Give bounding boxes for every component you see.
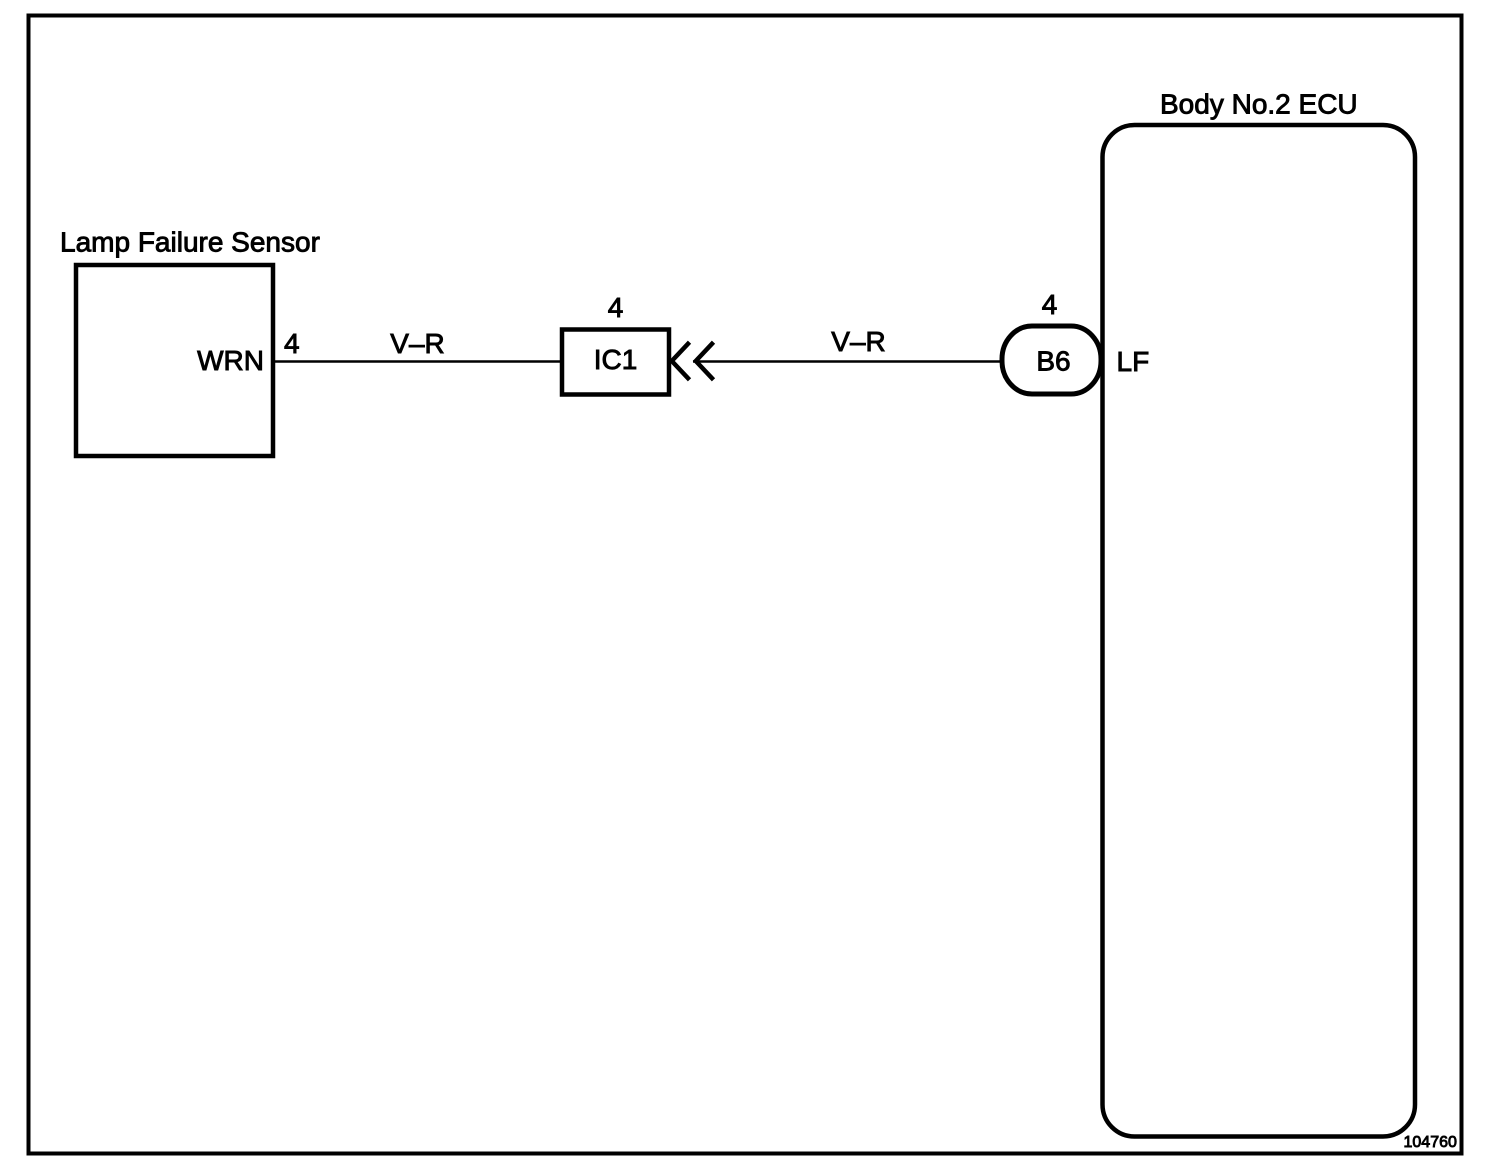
Body No.2 ECU box	[1103, 125, 1416, 1137]
svg-text:LF: LF	[1117, 346, 1150, 377]
wire sensor to IC1	[273, 360, 563, 363]
svg-text:Body No.2 ECU: Body No.2 ECU	[1160, 89, 1358, 120]
svg-text:4: 4	[608, 292, 624, 323]
junction IC1 box	[562, 330, 669, 395]
svg-text:4: 4	[1042, 289, 1058, 320]
svg-text:4: 4	[284, 328, 300, 359]
svg-text:IC1: IC1	[594, 344, 638, 375]
svg-text:V–R: V–R	[390, 328, 444, 359]
arrow chevron 2	[696, 342, 714, 380]
arrow chevron 1	[672, 342, 690, 380]
svg-text:WRN: WRN	[197, 345, 264, 376]
svg-text:B6: B6	[1036, 346, 1070, 377]
svg-text:V–R: V–R	[831, 326, 885, 357]
svg-text:104760: 104760	[1404, 1134, 1457, 1151]
svg-text:Lamp Failure Sensor: Lamp Failure Sensor	[60, 227, 320, 258]
wire B6 to arrow	[693, 360, 1002, 363]
connector B6 oval	[1002, 326, 1101, 394]
lamp failure sensor box	[76, 265, 273, 456]
